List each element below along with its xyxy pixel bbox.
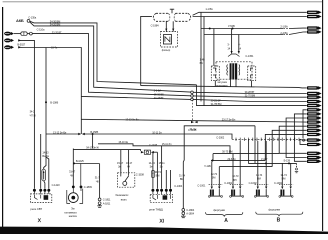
wire fuel pump feed x73.3 <box>72 164 74 186</box>
labels C-1811 A-1811 <box>103 198 111 206</box>
wire coil primary pin right x240.5 <box>238 35 240 54</box>
label 34-30 VM <box>50 20 60 24</box>
svg-text:15-17: 15-17 <box>117 161 124 165</box>
svg-text:16-17: 16-17 <box>126 161 133 165</box>
connector row ticks <box>236 138 299 141</box>
svg-text:12-73: 12-73 <box>211 172 218 176</box>
relay SVT terminals <box>33 189 50 192</box>
label 34-20 VM <box>50 23 60 27</box>
wire 32-70 VT row2 to bend x89 <box>32 34 190 96</box>
wire branch V-1585 down to 54-13 line <box>92 134 94 149</box>
wire H1b to second top right plug <box>193 16 307 18</box>
svg-text:реле СВТ: реле СВТ <box>30 207 42 211</box>
svg-text:фильтр: фильтр <box>162 48 171 52</box>
wire H1a 1-1 VA to top right plug <box>193 12 307 15</box>
plug y101.5 <box>307 100 322 103</box>
label U-107 <box>261 157 268 161</box>
label 12-73 ZM <box>211 172 218 180</box>
wire 34-30 VM from battery to bend x96 <box>30 21 197 85</box>
label 30-73 VM <box>222 150 232 154</box>
wire capsule left exit down x140.7 <box>141 16 152 85</box>
label C-1508 <box>136 173 145 177</box>
plug y31.9 <box>307 30 322 33</box>
label C-2002 <box>216 136 225 140</box>
label C-110a <box>37 27 45 31</box>
svg-text:ВМ: ВМ <box>257 177 261 181</box>
wire long line 13-12 / 23-17 y122.1 to plug 122.3 <box>81 119 306 122</box>
relay TNVD dashed box <box>150 194 172 202</box>
wire TNVD feed x166.3 <box>165 170 167 189</box>
wire plug 109.8 bend x303 <box>303 110 307 138</box>
svg-text:В-1585: В-1585 <box>90 130 98 134</box>
wire TNVD feed x152.9 <box>152 153 154 189</box>
wire injector4 left feed <box>281 163 283 186</box>
label 15-11 Zl <box>162 142 172 146</box>
label 34-2 ChT-Zh on vertical <box>30 110 37 118</box>
wire return line y166.6 <box>219 166 272 168</box>
label C-1351 <box>245 54 254 58</box>
label EM toplivnogo nasosa <box>64 207 77 218</box>
filter dashed box <box>160 32 177 47</box>
wire middle row3 label 30-28 VT <box>154 96 164 100</box>
svg-text:С-1001: С-1001 <box>224 181 233 185</box>
svg-text:31-74: 31-74 <box>281 173 288 177</box>
svg-text:31-7В ВМ: 31-7В ВМ <box>211 102 222 106</box>
plug y134.4 <box>307 133 322 136</box>
relay TNVD terminals <box>151 189 172 192</box>
junction node V-1025 <box>73 162 75 164</box>
svg-text:15-7а: 15-7а <box>51 46 58 50</box>
wire 34-20 VM from battery to bend x92.5 <box>30 22 191 92</box>
wire TNVD feed x170.5 <box>170 170 172 189</box>
label C-1938 <box>188 128 197 132</box>
label 32-73 VL <box>232 174 239 182</box>
ground symbol TNVD <box>181 215 186 218</box>
page border top <box>3 1 323 3</box>
wire left end down to U-12B <box>212 154 214 161</box>
labels C-1804 A-1804 <box>186 208 195 216</box>
label 30-28 VT right <box>245 90 255 94</box>
wire injector4 right leg <box>290 163 292 186</box>
wire middle row1 right part to plug 93.8 <box>193 92 306 93</box>
wire TNVD feed x161.6 <box>161 146 163 189</box>
label 15-11 Zl small <box>159 161 166 169</box>
svg-text:С-1423: С-1423 <box>52 183 61 187</box>
svg-text:С-2002: С-2002 <box>216 136 225 140</box>
label 3-14 <box>227 43 230 51</box>
wire line U-107 B-139 y163.4 <box>249 139 297 163</box>
svg-text:1-1 ВА: 1-1 ВА <box>205 7 213 11</box>
wire coil right box pin down to bus <box>251 80 253 87</box>
connector plug row2 left <box>4 32 14 36</box>
relay SVT dashed box <box>30 194 51 203</box>
connector circle row1 <box>191 91 194 94</box>
ground circles C-1811 A-1811 <box>98 198 101 205</box>
svg-text:АКБ: АКБ <box>16 18 24 23</box>
plug y93.5 <box>307 92 322 95</box>
filter inner element <box>163 35 171 44</box>
svg-text:С-1508: С-1508 <box>136 173 145 177</box>
wire benzonasos feed x120.8 <box>120 150 122 173</box>
wire branch x213.9 to coil left box <box>213 29 215 67</box>
label 13-12 Ze-Be lower <box>53 130 67 134</box>
coil side terminal box left <box>211 66 219 80</box>
label 12-1 B <box>179 173 186 181</box>
svg-text:4-: 4- <box>238 43 240 47</box>
wire branch x46 down to fuse and relay SVT <box>44 48 46 170</box>
svg-text:В-1086: В-1086 <box>50 101 58 105</box>
label 31-4V VM <box>200 58 205 65</box>
svg-text:ЧТ-Ж: ЧТ-Ж <box>30 113 37 117</box>
page border right <box>322 0 324 231</box>
wire dashed row end to plug 140.3 <box>300 138 307 141</box>
plug y144.4 <box>307 143 322 146</box>
right edge connector plug column <box>307 11 322 163</box>
wire filter pin right <box>172 21 174 31</box>
wire middle row1 left part 2-2 VA <box>154 89 162 93</box>
junction node U-12B <box>212 159 214 161</box>
svg-text:ВЛ: ВЛ <box>233 178 237 182</box>
plug y157.5 <box>307 156 322 159</box>
label C-1328 <box>149 143 158 147</box>
svg-text:13-12 Зе-Бе: 13-12 Зе-Бе <box>125 118 139 122</box>
inline fuse on TNVD feed <box>151 170 154 177</box>
svg-text:32-70 ВТ: 32-70 ВТ <box>52 30 62 34</box>
wire fuse to relay terminal <box>44 181 45 189</box>
svg-text:ВА: ВА <box>200 61 204 65</box>
brace group A <box>206 212 243 216</box>
wire C-1328 to TNVD verticals <box>154 151 158 153</box>
wire coil primary pin left x231.6 <box>231 29 233 54</box>
wire plug 118 / plug 157.5 via x286.1 <box>286 118 307 158</box>
svg-text:15-10 Зе: 15-10 Зе <box>118 140 128 144</box>
junction node on coil feed <box>209 28 211 30</box>
label 2-1 VA <box>280 25 288 29</box>
label 15-10 Ze <box>118 140 128 144</box>
connector arrows pair on line <box>78 133 85 135</box>
wire plug 126.2 / plug 153.3 via x279.2 <box>279 126 307 153</box>
plug y87.9 <box>307 86 322 89</box>
label C-1984 <box>151 24 160 28</box>
label 2-4 VA <box>280 31 288 35</box>
svg-text:14-13: 14-13 <box>149 161 156 165</box>
brace group B <box>256 212 303 216</box>
benzonasos switch dashed box <box>118 173 135 187</box>
inline connector circle before plug <box>303 139 305 141</box>
svg-text:В-1025: В-1025 <box>76 159 84 163</box>
label forsunki A <box>213 208 225 212</box>
label V-1585 <box>90 130 98 134</box>
svg-text:31-70 ВМ: 31-70 ВМ <box>245 94 255 98</box>
label C-1001 inj1 <box>197 183 206 187</box>
wire line 54-13 y148.5 <box>73 150 140 151</box>
coil top connector bracket <box>228 54 240 57</box>
svg-text:30-28 ВТ: 30-28 ВТ <box>245 90 255 94</box>
letter B <box>277 218 281 224</box>
wire row4 branch to middle connector row3 <box>81 96 190 99</box>
wire vertical x203 from H1a to coil feed line <box>200 12 202 101</box>
svg-text:Б-139: Б-139 <box>284 159 291 163</box>
svg-text:15-30 ВБ: 15-30 ВБ <box>154 92 164 96</box>
fuel pump bracket <box>67 189 83 204</box>
svg-text:бензонасос: бензонасос <box>115 193 129 197</box>
label 14-13 Ze <box>149 161 156 169</box>
svg-text:3-: 3- <box>227 43 229 47</box>
label C-1423 <box>52 183 61 187</box>
label 54-13 Ze-Zh <box>86 146 99 150</box>
wire 15-7a row4 long to ignition coil side <box>20 47 82 134</box>
wire ground feed x100.5 <box>99 164 101 199</box>
label C-1304 <box>174 184 183 188</box>
svg-text:насоса: насоса <box>69 215 77 218</box>
svg-text:54-13 Зе-Ж: 54-13 Зе-Ж <box>86 146 99 150</box>
label 1-1 VA <box>205 7 213 11</box>
label C-1809 <box>84 185 93 189</box>
wire line 30-73 VM y153.6 <box>213 153 279 155</box>
svg-text:31-7: 31-7 <box>95 176 100 180</box>
terminal circle C-130a <box>27 20 30 23</box>
svg-text:15-11: 15-11 <box>159 161 166 165</box>
label 15-17 Ze <box>117 161 124 169</box>
svg-text:форсунки: форсунки <box>213 208 225 212</box>
inline connector C-1328 <box>141 150 154 154</box>
svg-text:С-130а: С-130а <box>28 16 37 20</box>
injector 4 <box>279 184 293 197</box>
svg-text:ЗМ: ЗМ <box>212 176 216 180</box>
wire coil feed line2 y34.5 <box>204 32 307 35</box>
connector housing capsule top center <box>153 13 190 21</box>
injector 2 <box>230 184 244 197</box>
wire coil left box pin down to bus <box>214 80 216 86</box>
svg-text:34-2: 34-2 <box>30 110 35 114</box>
plug y161.3 <box>307 160 322 163</box>
svg-text:У-12Б: У-12Б <box>204 164 211 168</box>
relay TNVD contacts <box>153 195 171 200</box>
svg-text:выкл.: выкл. <box>121 198 128 201</box>
ignition coil winding right <box>238 65 241 76</box>
connector circle row2 <box>191 95 194 98</box>
label U-52V <box>228 24 235 28</box>
svg-text:С-1001: С-1001 <box>197 183 206 187</box>
svg-text:С-1804: С-1804 <box>186 208 195 212</box>
numeral XI <box>158 218 164 225</box>
wire line 29-6 Zl y160.4 <box>211 159 265 161</box>
plug y122.1 <box>307 120 322 123</box>
label rele SVT <box>30 207 42 211</box>
svg-text:14-13: 14-13 <box>42 150 49 154</box>
wire line y162.9 <box>74 163 99 165</box>
svg-text:31-67: 31-67 <box>69 170 76 174</box>
svg-text:2-1 ВА: 2-1 ВА <box>280 25 288 29</box>
wire row2 plug to capsule <box>14 33 21 35</box>
svg-text:30-73 ВМ: 30-73 ВМ <box>222 150 232 154</box>
connector circle row3 <box>191 98 194 101</box>
label 29-6 Zl <box>227 157 236 161</box>
label 31-70 VM right <box>245 94 255 98</box>
label 30-2V VT on line <box>211 99 221 103</box>
svg-text:Эм: Эм <box>71 207 75 211</box>
splice boundary dashed vertical <box>191 94 193 122</box>
svg-text:2-4 ВА: 2-4 ВА <box>280 31 288 35</box>
svg-text:реле ТНВД: реле ТНВД <box>149 207 163 211</box>
label 13-12 Ze-Be upper <box>125 118 139 122</box>
wire coil bottom pin1 to bus <box>230 79 232 87</box>
ignition coil core bars <box>230 63 238 79</box>
wire end stub with connector <box>295 163 298 172</box>
plug y97.2 <box>307 96 322 99</box>
label 32-70 VT <box>52 30 62 34</box>
svg-text:С-1304: С-1304 <box>174 184 183 188</box>
wire middle row2 label 15-30 <box>154 92 164 96</box>
svg-text:В: В <box>277 218 281 224</box>
wire dashed row end to plug 144.6 <box>300 139 307 144</box>
svg-text:А-1804: А-1804 <box>186 212 194 216</box>
wire plug 130.3 bend down x272.2 to return line <box>272 130 307 166</box>
label 34-74 VM <box>155 170 162 178</box>
svg-text:Ⅺ: Ⅺ <box>158 218 164 225</box>
svg-text:2-2 ВА: 2-2 ВА <box>154 89 162 93</box>
svg-text:30-2В ВТ: 30-2В ВТ <box>211 99 221 103</box>
wire line 15-10 Ze y143.8 <box>98 144 230 154</box>
svg-text:30-28 ВТ: 30-28 ВТ <box>154 96 164 100</box>
ignition coil dashed box <box>216 62 252 79</box>
wire branch x196.5 to plug 105.9 <box>197 85 307 106</box>
fuse <box>42 169 46 181</box>
plug y118 <box>307 116 322 119</box>
wire coil feed line1 y28.6 <box>201 27 307 29</box>
junction arrow row3 <box>18 39 21 41</box>
wire row3 to vertical x34.4 down to relay SVT <box>20 40 35 188</box>
wire branch x40.7 down to relay SVT <box>40 134 42 189</box>
label 4-14 <box>238 43 241 51</box>
plug y140.1 <box>307 138 322 141</box>
svg-text:С-1002: С-1002 <box>274 181 283 185</box>
svg-text:С-1351: С-1351 <box>245 54 254 58</box>
wire main bus y86.4 to plug y88.2 <box>141 86 307 88</box>
plug y28.1 <box>307 26 322 29</box>
svg-text:С-110а: С-110а <box>37 27 45 31</box>
svg-text:15-11 Зл: 15-11 Зл <box>162 142 172 146</box>
label filter <box>162 48 171 52</box>
wire injector1 left feed <box>211 160 214 186</box>
wire plug 113.9 / plug 161.3 via x294.4 <box>294 114 306 161</box>
plug y153.3 <box>307 152 322 155</box>
plug y105.6 <box>307 104 322 107</box>
svg-text:А-1811: А-1811 <box>103 202 111 206</box>
plug y109.8 <box>307 108 322 111</box>
svg-text:13-12 Зе-Бе: 13-12 Зе-Бе <box>53 130 67 134</box>
label 16-74 VM <box>256 173 263 181</box>
junction node V-1585 <box>92 133 94 135</box>
plug y16.5 <box>307 15 322 18</box>
svg-text:23-17 Зе-Вл: 23-17 Зе-Вл <box>222 118 236 122</box>
wire line 13-12 Ze-Be lower y134 <box>46 133 78 135</box>
wire injector1 right leg up <box>218 167 220 187</box>
svg-text:Ⅹ: Ⅹ <box>37 217 42 224</box>
label 34-Chzh <box>190 127 197 131</box>
wire branch x200 to plug 110 <box>203 17 205 106</box>
label C-1001 <box>224 181 233 185</box>
connector arrows pair on 23-17 line <box>191 121 198 123</box>
svg-text:34-74: 34-74 <box>155 170 162 174</box>
label V-1025 <box>76 159 84 163</box>
plug y126.2 <box>307 125 322 128</box>
plug y130.3 <box>307 129 322 132</box>
label 31-67 ChK <box>69 170 76 178</box>
label 23-17 Ze-Vl <box>222 118 236 122</box>
svg-text:С-1809: С-1809 <box>84 185 93 189</box>
svg-text:10-11 Зл: 10-11 Зл <box>152 130 162 134</box>
fuel pump motor terminals <box>72 186 83 189</box>
plug y12.3 <box>307 11 322 14</box>
label 10-11 Zl <box>152 130 162 134</box>
wire branch x73.3 down to pump junction <box>72 149 74 164</box>
label rele TNVD <box>149 207 163 211</box>
wire TNVD feed x157.4 <box>156 152 158 188</box>
label V-5027 <box>17 43 25 47</box>
relay SVT terminal pins <box>34 192 48 194</box>
label V-1086 <box>50 101 58 105</box>
wire line y134 continuation to dashed row <box>85 134 232 139</box>
fuel pump motor circle <box>68 188 81 202</box>
wire injector3 right leg <box>265 141 267 186</box>
fuel pump motor pin stub <box>80 164 82 187</box>
junction node V-1086 <box>45 101 47 103</box>
label C-1002 inj4 <box>274 181 283 185</box>
wire benzonasos feed x128.6 <box>128 150 130 173</box>
terminal circle C-110a <box>27 32 32 35</box>
label forsunki B <box>268 208 280 212</box>
svg-text:16-74: 16-74 <box>256 173 263 177</box>
wire injector2 left feed from dashed row <box>232 154 234 187</box>
ignition coil winding left <box>226 65 229 76</box>
label 16-17 ACh <box>126 161 133 169</box>
label 31-74 VM <box>281 173 288 181</box>
label 31-7V VM on line <box>211 102 222 106</box>
svg-text:У-107: У-107 <box>261 157 268 161</box>
injector 3 <box>254 184 268 197</box>
wire coil bottom pin2 to bus <box>235 79 237 87</box>
multi-pin dashed connector row C-2002 <box>232 138 300 140</box>
svg-text:У-52В: У-52В <box>228 24 235 28</box>
svg-text:С-1984: С-1984 <box>151 24 160 28</box>
label benzonasos vykl <box>115 193 129 201</box>
wire middle row3 right part to plug 101.8 <box>193 99 306 101</box>
label C-130a <box>28 16 37 20</box>
svg-text:32-73: 32-73 <box>232 174 239 178</box>
wire filter pin left <box>165 21 167 31</box>
wire injector2 right leg from dashed row <box>239 141 241 186</box>
svg-text:АЧ: АЧ <box>127 165 130 169</box>
label C-1002 <box>249 181 258 185</box>
junction arrow row4 <box>18 46 21 48</box>
inline connector capsule row2 <box>21 32 27 35</box>
wire ground feed line y125.8 <box>183 126 255 209</box>
benzonasos switch symbol <box>121 173 129 186</box>
label 14-13 Va-Ak <box>42 150 49 158</box>
svg-text:31-74: 31-74 <box>179 173 186 177</box>
junction node B-139 <box>288 162 290 164</box>
relay SVT contacts <box>34 195 48 200</box>
svg-text:В-5027: В-5027 <box>17 43 25 47</box>
letter A <box>224 218 228 224</box>
svg-text:форсунки: форсунки <box>268 208 280 212</box>
label B-139 <box>284 159 291 163</box>
wire middle row2 right part to plug 97.7 <box>193 96 306 97</box>
svg-text:34-20 ВМ: 34-20 ВМ <box>50 23 60 27</box>
numeral X <box>37 217 42 224</box>
svg-text:топливного: топливного <box>64 211 77 214</box>
